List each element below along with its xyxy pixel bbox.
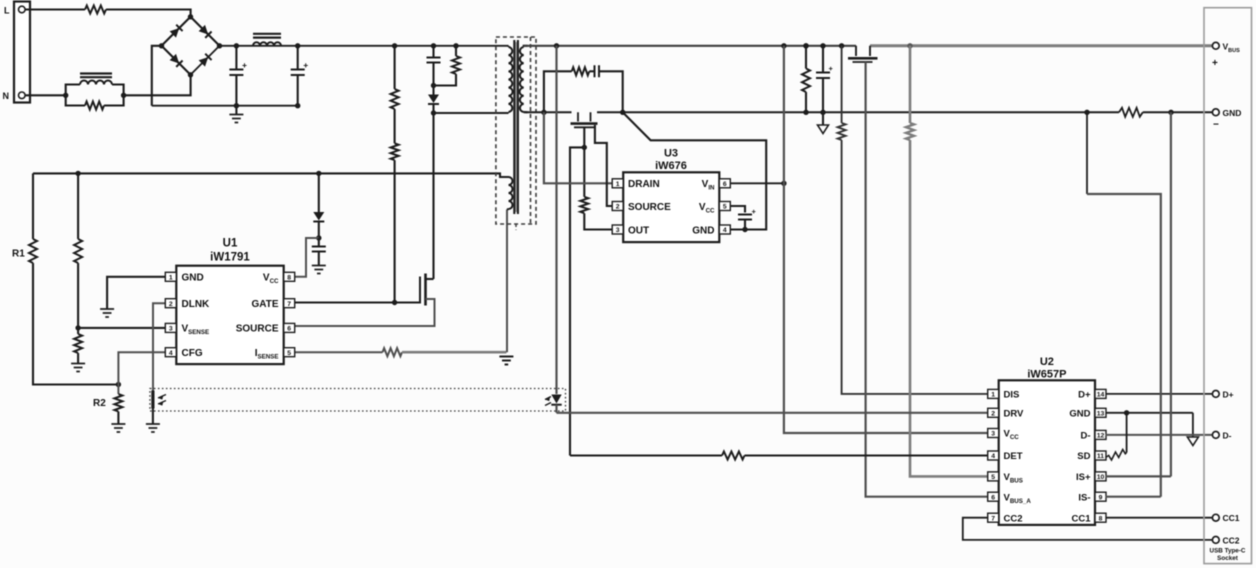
svg-text:5: 5	[723, 204, 727, 211]
svg-text:iW676: iW676	[655, 160, 687, 172]
svg-text:+: +	[752, 207, 757, 216]
svg-text:10: 10	[1097, 474, 1105, 481]
svg-text:4: 4	[991, 453, 995, 460]
svg-text:U3: U3	[664, 148, 678, 160]
svg-text:SOURCE: SOURCE	[628, 202, 671, 213]
svg-text:+: +	[1212, 58, 1218, 69]
svg-text:4: 4	[723, 227, 727, 234]
svg-text:6: 6	[287, 326, 291, 333]
svg-text:USB Type-C: USB Type-C	[1210, 548, 1246, 555]
svg-text:+: +	[829, 64, 834, 73]
svg-text:2: 2	[616, 204, 620, 211]
svg-text:6: 6	[991, 494, 995, 501]
svg-text:+: +	[303, 60, 308, 70]
svg-text:GATE: GATE	[251, 299, 278, 310]
svg-text:1: 1	[991, 392, 995, 399]
svg-text:GND: GND	[692, 226, 714, 237]
svg-text:7: 7	[991, 515, 995, 522]
svg-text:GND: GND	[182, 273, 204, 284]
svg-text:L: L	[4, 6, 10, 16]
svg-text:CC2: CC2	[1223, 535, 1240, 545]
svg-text:7: 7	[287, 301, 291, 308]
svg-text:9: 9	[1099, 494, 1103, 501]
svg-text:6: 6	[723, 181, 727, 188]
svg-text:2: 2	[169, 301, 173, 308]
svg-text:1: 1	[169, 274, 173, 281]
svg-text:U2: U2	[1040, 356, 1054, 368]
svg-text:SOURCE: SOURCE	[236, 324, 279, 335]
svg-text:3: 3	[169, 326, 173, 333]
svg-text:IS-: IS-	[1078, 492, 1090, 503]
svg-text:1: 1	[616, 181, 620, 188]
svg-text:14: 14	[1097, 392, 1105, 399]
svg-text:3: 3	[991, 431, 995, 438]
svg-text:CFG: CFG	[182, 348, 203, 359]
svg-text:DRAIN: DRAIN	[628, 179, 660, 190]
svg-text:R1: R1	[12, 249, 25, 260]
svg-text:+: +	[242, 60, 247, 70]
svg-text:OUT: OUT	[628, 226, 649, 237]
svg-text:U1: U1	[223, 238, 238, 250]
svg-text:2: 2	[991, 410, 995, 417]
svg-text:SD: SD	[1077, 451, 1090, 462]
svg-text:DET: DET	[1004, 451, 1023, 462]
svg-text:iW1791: iW1791	[210, 252, 250, 264]
svg-text:3: 3	[616, 227, 620, 234]
svg-text:D-: D-	[1223, 430, 1232, 440]
svg-text:11: 11	[1097, 453, 1104, 460]
svg-text:CC1: CC1	[1223, 513, 1240, 523]
svg-text:R2: R2	[93, 398, 106, 409]
svg-text:CC1: CC1	[1071, 513, 1091, 524]
svg-text:Socket: Socket	[1217, 555, 1239, 562]
svg-text:5: 5	[287, 350, 291, 357]
svg-text:GND: GND	[1223, 108, 1242, 118]
svg-text:IS+: IS+	[1076, 472, 1091, 483]
svg-text:D+: D+	[1223, 389, 1234, 399]
svg-text:CC2: CC2	[1004, 513, 1023, 524]
svg-text:DIS: DIS	[1004, 390, 1020, 401]
svg-text:5: 5	[991, 474, 995, 481]
svg-text:DRV: DRV	[1004, 409, 1025, 420]
svg-text:13: 13	[1097, 410, 1105, 417]
svg-text:N: N	[3, 91, 10, 101]
svg-text:D+: D+	[1078, 390, 1091, 401]
svg-text:4: 4	[169, 350, 173, 357]
svg-text:D-: D-	[1080, 431, 1090, 442]
svg-text:8: 8	[287, 274, 291, 281]
svg-text:12: 12	[1097, 433, 1105, 440]
svg-text:DLNK: DLNK	[182, 299, 211, 310]
svg-text:iW657P: iW657P	[1027, 369, 1066, 381]
svg-text:8: 8	[1099, 515, 1103, 522]
svg-text:−: −	[1213, 120, 1219, 131]
svg-text:GND: GND	[1069, 409, 1090, 420]
